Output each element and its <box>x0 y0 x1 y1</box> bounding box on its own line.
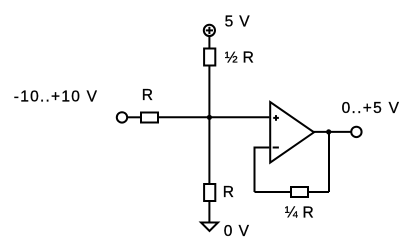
output terminal <box>351 127 361 137</box>
op-amp U1 <box>270 102 314 163</box>
svg-text:-10..+10 V: -10..+10 V <box>14 89 98 106</box>
wire feedback right vertical <box>328 132 330 192</box>
resistor R4 (quarter R) <box>291 187 308 197</box>
svg-text:¼ R: ¼ R <box>285 205 314 222</box>
wire R1 to node A to op-amp plus input <box>158 116 269 118</box>
svg-text:5 V: 5 V <box>225 13 251 30</box>
wire power terminal to half-R <box>208 36 210 49</box>
wire input terminal to R1 <box>127 116 142 118</box>
wire node A to R3 <box>208 117 210 184</box>
input terminal <box>117 112 127 122</box>
svg-text:R: R <box>142 87 153 104</box>
node A junction <box>207 115 212 120</box>
wire feedback bottom left <box>255 191 293 193</box>
svg-text:R: R <box>223 184 234 201</box>
power terminal +5V <box>204 25 215 36</box>
wire op-amp minus input <box>255 147 270 149</box>
svg-text:½ R: ½ R <box>225 49 254 66</box>
output junction <box>326 129 331 134</box>
svg-text:0 V: 0 V <box>224 223 250 240</box>
wire feedback left vertical <box>254 147 256 193</box>
wire R3 to ground <box>208 201 210 223</box>
wire op-amp output <box>313 131 351 133</box>
ground <box>201 223 218 232</box>
resistor R2 (half R) <box>204 49 215 66</box>
wire half-R to node A <box>208 66 210 118</box>
resistor R1 <box>141 113 158 123</box>
svg-text:0..+5 V: 0..+5 V <box>342 100 401 117</box>
wire feedback bottom right <box>307 191 329 193</box>
resistor R3 <box>204 184 215 201</box>
